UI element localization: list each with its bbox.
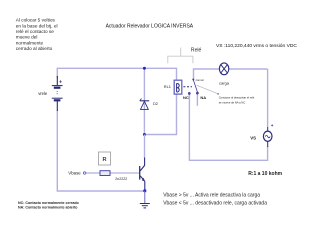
svg-text:+: + — [271, 123, 274, 128]
wire lamp branch top — [194, 69, 268, 79]
svg-text:Vbase > 5v ... Activa rele de: Vbase > 5v ... Activa rele desactiva la … — [163, 192, 260, 198]
wire top from battery to coil — [57, 68, 176, 80]
relay bracket — [168, 48, 193, 64]
svg-text:Relé: Relé — [191, 48, 202, 54]
resistor R — [100, 171, 110, 176]
svg-text:D2: D2 — [153, 101, 158, 106]
svg-text:cerrado al abierto: cerrado al abierto — [16, 46, 53, 51]
wire battery bottom to emitter — [57, 110, 145, 191]
lamp carga — [219, 63, 228, 75]
svg-text:2n2222: 2n2222 — [115, 177, 127, 181]
node junction bottom of diode — [143, 133, 146, 136]
contact NA — [196, 92, 198, 94]
transistor Q1 2n2222 — [140, 158, 145, 191]
svg-text:se mueve de NA a NC: se mueve de NA a NC — [219, 101, 246, 105]
contact NC — [188, 92, 190, 94]
svg-text:relé el contacto se: relé el contacto se — [16, 29, 54, 34]
dashed link coil to contact — [183, 86, 192, 88]
svg-text:Vbase: Vbase — [68, 171, 81, 176]
wire diode branch vertical — [143, 68, 145, 134]
svg-text:R:1 a 10 kohm: R:1 a 10 kohm — [248, 171, 282, 177]
node junction emitter-ground — [143, 189, 146, 192]
svg-text:Al colocar 5 voltios: Al colocar 5 voltios — [16, 18, 56, 23]
svg-text:NC: NC — [183, 95, 189, 100]
pointer line to note — [197, 85, 218, 94]
svg-text:Contactor al desactivar el rel: Contactor al desactivar el relé — [219, 96, 255, 100]
terminal Vbase — [83, 172, 85, 174]
svg-text:mueve del: mueve del — [16, 35, 38, 40]
switch arm — [193, 80, 197, 92]
wire base input — [86, 172, 100, 174]
diode D2 — [140, 99, 149, 110]
wire collector vertical — [144, 135, 146, 159]
svg-text:vrele: vrele — [38, 91, 48, 96]
svg-text:normalmente: normalmente — [16, 40, 44, 45]
relay coil RL1 — [174, 80, 182, 94]
wire VS bottom loop to NC — [189, 95, 267, 161]
wire right vertical to VS — [267, 69, 269, 127]
svg-text:NC: Contacto normalmente cerra: NC: Contacto normalmente cerrado — [18, 201, 80, 205]
svg-text:NA: NA — [200, 95, 206, 100]
svg-text:Vbase < 5v ... desactivado re: Vbase < 5v ... desactivado rele, carga a… — [163, 200, 267, 206]
note contactor — [219, 96, 255, 105]
svg-text:+: + — [59, 80, 62, 86]
svg-text:VS :110,220,440 vrms o tensión: VS :110,220,440 vrms o tensión VDC — [216, 43, 297, 49]
wire coil bottom to diode bottom — [144, 94, 176, 135]
svg-text:VS: VS — [250, 136, 256, 141]
node junction top of diode — [143, 67, 146, 70]
note NC NA bottom left — [18, 201, 80, 210]
svg-text:RL1: RL1 — [164, 84, 171, 89]
svg-text:carga: carga — [219, 81, 230, 86]
svg-text:R: R — [102, 157, 106, 163]
ground — [140, 191, 150, 208]
switch common pivot — [192, 79, 194, 81]
svg-text:comun: comun — [196, 78, 205, 82]
battery vrele — [52, 76, 63, 111]
R label box — [99, 152, 111, 165]
note vbase behaviour — [163, 192, 267, 206]
source VS — [263, 127, 272, 147]
note text top-left — [16, 18, 58, 52]
svg-text:en la base del btj, el: en la base del btj, el — [16, 23, 58, 28]
svg-text:NA: Contacto normalmente abier: NA: Contacto normalmente abierto — [18, 206, 78, 210]
wire NA stub — [196, 94, 198, 106]
svg-text:Actuador Relevador LOGICA INV: Actuador Relevador LOGICA INVERSA — [106, 24, 194, 30]
